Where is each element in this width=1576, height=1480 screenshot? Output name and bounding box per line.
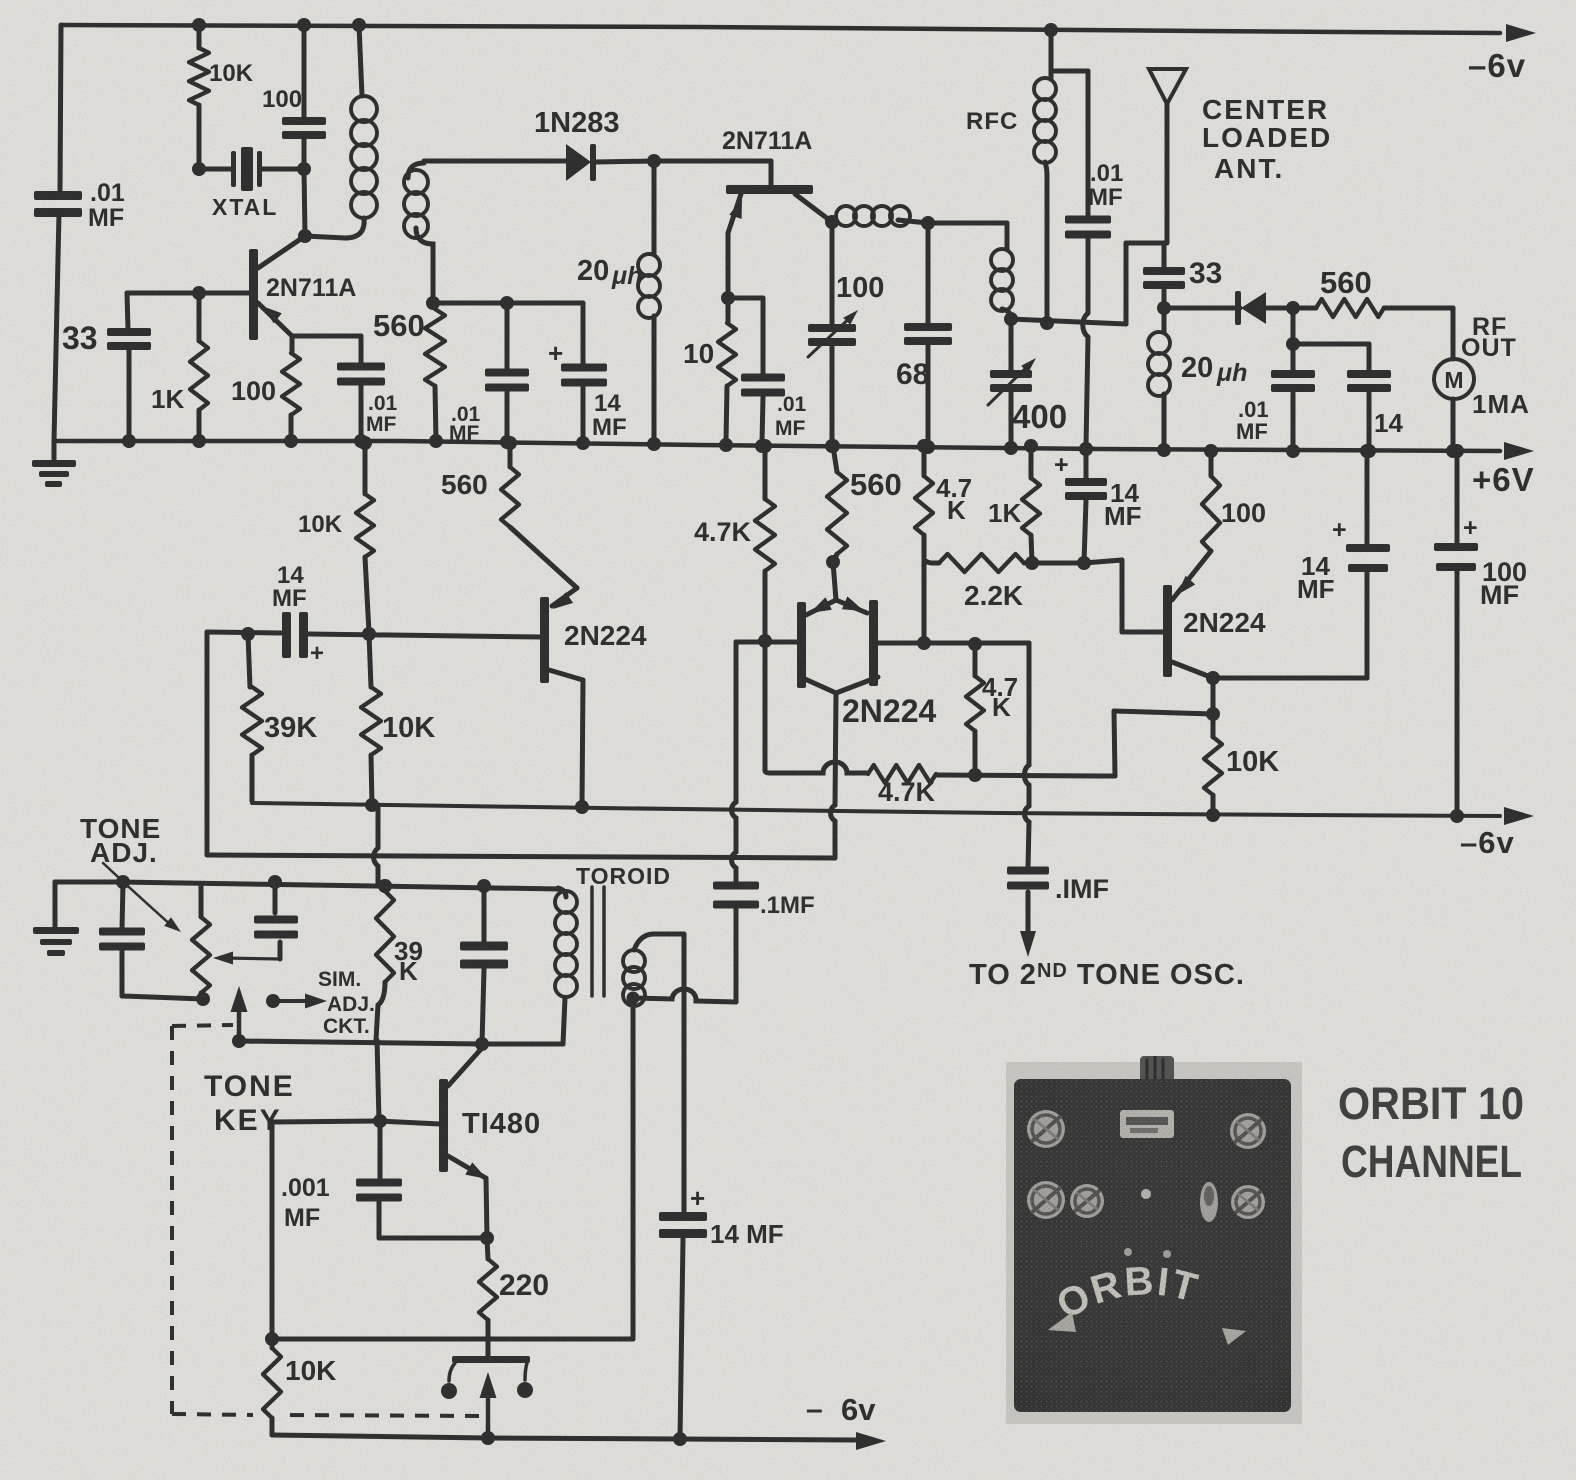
wire to meter <box>1451 308 1456 359</box>
wire Q3 bottom vertex down <box>831 693 837 858</box>
node xtal left <box>192 162 206 176</box>
label 14 MF C16 <box>1104 478 1142 531</box>
inductor L1 osc coil <box>305 25 377 238</box>
inductor L2 buffer coil <box>404 163 433 303</box>
label TO 2ND TONE OSC <box>969 959 1245 991</box>
label TI480 <box>462 1108 541 1140</box>
label 4.7K R12 <box>694 517 752 547</box>
node secondary bottom <box>627 992 640 1005</box>
label .01 MF C5 <box>775 393 807 440</box>
node 1K bottom <box>1025 556 1039 570</box>
label RFC <box>966 108 1018 135</box>
label .001 MF C25 <box>281 1174 330 1232</box>
power -6V top arrow <box>1506 24 1536 42</box>
photo orbit transmitter <box>1006 1056 1302 1424</box>
label .01 MF C4 <box>366 392 398 436</box>
label 10 R4 <box>683 338 714 369</box>
label 20uh L6 <box>1181 352 1247 387</box>
node base x765 <box>758 634 772 648</box>
wire y635 bus <box>207 632 541 637</box>
label 4.7K R13 <box>878 777 936 807</box>
resistor R6 560 <box>1293 299 1453 317</box>
wire base Q4 <box>1032 560 1163 632</box>
wire left vertical from top rail <box>60 25 61 193</box>
node C6 rail <box>500 435 514 449</box>
resistor R12 4.7K <box>755 446 775 641</box>
resistor R18 100 <box>1202 451 1220 551</box>
capacitor C9 68 <box>904 223 952 443</box>
label 10K R19 <box>1226 746 1279 778</box>
label 2N224 Q5 <box>564 620 647 651</box>
wire meter to rail <box>1451 399 1456 451</box>
node Q1 collector junction <box>298 229 312 243</box>
label 33 C3 <box>62 320 98 356</box>
wire x736 up with jogs <box>732 642 737 881</box>
label 2.2K R17 <box>964 580 1023 611</box>
label 560 R5 <box>373 308 425 343</box>
label .1MF C23 <box>760 892 815 919</box>
power +6V arrow <box>1504 442 1534 460</box>
label 220 R21 <box>499 1269 549 1302</box>
wire x272 down <box>270 1122 275 1339</box>
node RFC bottom <box>1040 316 1054 330</box>
node x1293 y344 <box>1286 308 1300 351</box>
node .001 top <box>373 1114 387 1128</box>
node x1213 y714 <box>1206 707 1220 721</box>
antenna center loaded <box>1149 69 1186 243</box>
wire +6V rail <box>54 441 1500 451</box>
ground symbol below rail left <box>32 441 76 487</box>
wire tone supply y885 <box>55 882 566 897</box>
label 560 R11 <box>850 467 902 502</box>
node C3 rail <box>122 434 136 448</box>
wire -6V mid rail <box>252 803 1500 816</box>
node pot bottom <box>196 992 210 1006</box>
node y885 x484 <box>477 879 491 893</box>
wire C1 to ground rail <box>54 213 59 441</box>
label .01 MF C1 <box>88 179 125 232</box>
label 10K R22 <box>285 1355 336 1386</box>
node rail x372 <box>365 798 379 812</box>
label 39K R8 <box>264 712 317 744</box>
node TI480 collector junction <box>475 1037 489 1051</box>
node top rail junction x304 <box>297 18 311 32</box>
node R12 rail <box>758 439 772 453</box>
resistor R2 1K <box>190 293 208 441</box>
node C10 rail <box>1004 441 1018 455</box>
wire secondary bottom hop <box>633 989 736 1002</box>
label -6v mid <box>1460 825 1515 860</box>
node C13 rail <box>1362 444 1376 458</box>
resistor R4 10 <box>718 298 736 441</box>
wire base line y1122 <box>272 1121 440 1124</box>
node tank x928 <box>921 216 935 230</box>
dashed key line vertical <box>170 1026 174 1414</box>
label .01 MF C14 <box>1236 397 1269 444</box>
label 2N711A Q2 <box>722 127 812 155</box>
node 560mod bottom <box>826 555 840 569</box>
wire Q3 left base <box>736 640 797 645</box>
wire 4.7K bottom line <box>765 762 868 773</box>
label -6v bottom <box>806 1392 876 1427</box>
dashed key line top <box>172 1025 233 1026</box>
node PA junction <box>1004 312 1018 326</box>
node y635 x369 <box>362 627 376 641</box>
wire x765 down <box>763 641 768 770</box>
wire chain x372-385 <box>374 807 379 885</box>
wire Q1 base line <box>127 291 250 296</box>
node y885 x275 <box>268 875 282 889</box>
node y635 x248 <box>241 627 255 641</box>
power -6V mid arrow <box>1504 807 1534 825</box>
label 560 R10 <box>441 469 488 500</box>
wire x633 down <box>272 998 633 1339</box>
wire x736 up to .1MF <box>734 909 739 1002</box>
label -6v top <box>1468 47 1526 84</box>
capacitor C19 100MF electrolytic <box>1434 444 1478 816</box>
node R5 rail <box>429 434 443 448</box>
capacitor C15 14MF electrolytic <box>282 612 324 667</box>
meter M RF OUT <box>1434 359 1474 399</box>
label RF OUT <box>1461 313 1517 362</box>
node base x924 <box>917 636 931 650</box>
resistor R15 4.7K upper <box>915 446 933 643</box>
label 14 C13 <box>1374 408 1403 438</box>
inductor RFC choke <box>1034 30 1056 323</box>
node D1 out <box>647 154 661 168</box>
node x1084 y563 <box>1077 556 1091 570</box>
wire RFC top to C11 <box>1051 69 1088 74</box>
wire to Q2 base <box>654 161 771 187</box>
resistor R3 100 emitter <box>282 336 300 441</box>
potentiometer tone adj <box>192 884 210 999</box>
node top rail junction x359 <box>352 18 366 32</box>
capacitor C2 100 <box>282 25 326 169</box>
inductor L6 20uh <box>1148 308 1170 449</box>
wire 39K chain down <box>377 1040 379 1121</box>
node C14 rail <box>1286 444 1300 458</box>
capacitor C5 .01MF <box>741 374 785 444</box>
label 14 MF C15 <box>272 562 307 612</box>
transistor Q6 TI480 <box>439 1048 487 1238</box>
node Q5 collector rail <box>575 800 589 814</box>
label TONE KEY <box>204 1070 295 1137</box>
capacitor C4 .01MF <box>337 363 385 442</box>
node C18 rail <box>1360 444 1374 458</box>
node Q2 collector <box>825 215 839 229</box>
node C11 rail <box>1079 442 1093 456</box>
node R3 rail <box>284 434 298 448</box>
node 560 Q5 rail <box>503 436 517 450</box>
label 10K R9 <box>382 712 435 744</box>
label XTAL <box>212 194 278 220</box>
capacitor C21 wiper <box>254 882 298 939</box>
label 10K R1 <box>209 60 254 87</box>
capacitor C11 .01MF <box>1065 71 1111 446</box>
node R13 x975 <box>968 768 982 782</box>
label TOROID <box>576 863 671 889</box>
node 560mod rail <box>826 439 840 453</box>
resistor R14 4.7K <box>966 644 984 775</box>
resistor R5 560 <box>425 309 445 441</box>
ground symbol tone left <box>33 882 79 956</box>
transformer toroid secondary <box>623 934 684 1006</box>
label TONE ADJ <box>80 813 161 868</box>
capacitor C25 .001MF <box>356 1121 487 1238</box>
wire ant to diode <box>1164 306 1240 311</box>
label 14 MF C7 <box>592 390 627 441</box>
wire x304 down <box>304 169 305 235</box>
node y885 x123 <box>116 875 130 889</box>
node R19 rail <box>1206 808 1220 822</box>
capacitor C23 .1MF <box>713 882 759 909</box>
wire -6V top rail <box>61 25 1500 33</box>
arrow to 2nd tone osc <box>1020 931 1036 957</box>
label .01 MF C11 <box>1088 160 1123 211</box>
transformer toroid core <box>592 887 604 996</box>
capacitor C1 .01MF left <box>34 191 82 217</box>
wire R13 to x1115 <box>936 711 1213 776</box>
node base x199 <box>192 286 206 300</box>
wire bottom -6V line <box>272 1435 855 1440</box>
label SIM ADJ CKT <box>318 968 375 1038</box>
label ORBIT 10 <box>1338 1078 1524 1129</box>
label 2N224 Q3 <box>842 693 937 729</box>
capacitor C24 14MF electrolytic <box>659 1183 707 1439</box>
sim adj dot arrow <box>266 994 327 1009</box>
wire y1044 to toroid <box>482 998 565 1044</box>
inductor L4 20uh choke <box>638 161 660 441</box>
node y885 x385 <box>378 879 392 893</box>
wire x684 down <box>682 934 687 1211</box>
wire y303 bus <box>433 301 583 306</box>
capacitor C3 33 <box>107 293 151 441</box>
node ant junction <box>1157 301 1171 315</box>
label .1MF C17 <box>1055 874 1109 904</box>
label 1K R2 <box>151 384 184 414</box>
label 100 R18 <box>1221 498 1266 528</box>
tone key arrow contact <box>231 986 248 1041</box>
dashed key line bottom <box>172 1414 480 1416</box>
node base x975 <box>968 637 982 651</box>
capacitor C12 33 <box>1143 243 1185 308</box>
node y303 x507 <box>500 296 514 310</box>
label 100 MF C19 <box>1480 557 1527 610</box>
wire feedback line y857 <box>207 855 835 858</box>
transformer toroid primary <box>555 891 577 997</box>
wire corner x207 <box>205 632 210 855</box>
resistor R22 10K <box>263 1339 281 1435</box>
node R4 rail <box>719 438 733 452</box>
label 39K R20 <box>394 936 423 986</box>
label .01 MF C6 <box>449 403 481 445</box>
resistor R7 10K <box>356 443 374 633</box>
transistor Q5 2N224 <box>540 588 583 806</box>
node L4 rail <box>647 437 661 451</box>
node key bottom <box>481 1431 495 1445</box>
transistor Q3 2N224 pair <box>797 562 878 693</box>
capacitor C18 14MF electrolytic <box>1332 451 1390 572</box>
diode D1 1N283 <box>566 144 654 181</box>
node C9 rail <box>921 440 935 454</box>
label +6V <box>1472 461 1535 498</box>
wire tone key line y1041 <box>239 1041 482 1044</box>
resistor R19 10K <box>1204 714 1222 815</box>
node meter rail <box>1446 444 1460 458</box>
label 10K R7 <box>298 511 343 538</box>
capacitor C10 400 variable <box>988 319 1036 447</box>
node tone key <box>232 1034 246 1048</box>
node C4 rail <box>354 434 368 448</box>
node C24 bottom <box>673 1432 687 1446</box>
node R16 rail <box>1024 439 1038 453</box>
label 2N711A Q1 <box>266 274 356 302</box>
wire collector to C18 <box>1213 572 1367 678</box>
label 4.7K R14 <box>982 672 1018 722</box>
wire Q3 right base <box>878 641 1029 646</box>
node top rail junction x199 <box>192 18 206 32</box>
capacitor C22 tone <box>460 886 508 1044</box>
wiper arrow pot <box>213 942 280 965</box>
wire x1029 to 2nd tone <box>1025 643 1030 869</box>
wire Q4 collector down <box>1211 678 1216 714</box>
arrow tone adj pointer <box>103 863 181 932</box>
label 68 C9 <box>896 358 929 391</box>
inductor L3 tank coil <box>836 206 928 226</box>
resistor R16 1K <box>1022 446 1040 563</box>
node Q2 emitter junction <box>721 291 735 305</box>
label 1MA <box>1472 389 1530 419</box>
label 100 C8 <box>836 272 884 304</box>
resistor R8 39K <box>242 634 262 801</box>
node R2 rail <box>192 434 206 448</box>
resistor R10 560 <box>501 443 577 588</box>
node L6 rail <box>1157 443 1171 457</box>
wire emitter to C4 <box>292 336 361 363</box>
capacitor C13 14 <box>1293 344 1391 451</box>
capacitor C16 14MF electrolytic <box>1054 442 1107 563</box>
label 14 MF C18 <box>1297 551 1335 604</box>
node emitter junction <box>480 1231 494 1245</box>
capacitor C17 .1MF <box>1007 867 1049 939</box>
node C7 rail <box>576 436 590 450</box>
resistor R9 10K <box>361 634 381 806</box>
node top rail junction x1051 <box>1044 23 1058 37</box>
label 1N283 <box>534 107 619 139</box>
label 100 C2 <box>262 86 302 113</box>
capacitor C6 .01MF <box>485 303 529 441</box>
node 560 top <box>426 296 440 310</box>
label 400 C10 <box>1012 398 1067 435</box>
node x272 y1339 <box>265 1332 279 1346</box>
wire PA node line <box>1011 243 1164 324</box>
label 20uh L4 <box>577 255 642 290</box>
node C5 rail <box>755 439 769 453</box>
transistor Q4 2N224 <box>1163 551 1213 678</box>
node D2 out <box>1286 301 1300 315</box>
label 100 R3 <box>231 376 276 406</box>
node C19 rail <box>1450 809 1464 823</box>
node R18 rail <box>1204 444 1218 458</box>
label 1K R16 <box>988 498 1021 528</box>
resistor R11 560 <box>827 446 847 562</box>
capacitor C7 14MF plus <box>548 303 607 441</box>
node R7 rail <box>358 436 372 450</box>
node xtal right <box>297 162 311 176</box>
label CHANNEL <box>1341 1136 1522 1187</box>
capacitor C14 .01MF <box>1271 344 1315 451</box>
label 33 C12 <box>1189 257 1222 290</box>
label 14 MF C24 <box>710 1219 784 1249</box>
power -6V bottom arrow <box>856 1432 886 1450</box>
inductor L5 small tank coil <box>991 249 1013 318</box>
node Q4 collector <box>1206 671 1220 685</box>
capacitor C20 tone left <box>99 882 203 999</box>
transistor Q1 2N711A <box>249 236 305 340</box>
wire L2 to diode <box>424 159 566 164</box>
node C8 rail <box>825 439 839 453</box>
resistor R13 4.7K <box>868 765 936 783</box>
capacitor C8 100 variable <box>808 222 858 441</box>
resistor R20 39K <box>376 879 394 1040</box>
resistor R1 10K <box>189 25 209 169</box>
crystal XTAL Y1 <box>199 147 304 191</box>
label 560 R6 <box>1320 265 1372 300</box>
key symbol <box>441 1340 533 1440</box>
wire emitter to C5 <box>728 298 763 374</box>
label 2N224 Q4 <box>1183 607 1266 638</box>
node R15 rail <box>917 439 931 453</box>
transistor Q2 2N711A <box>726 185 832 298</box>
resistor R17 2.2K <box>924 554 1032 572</box>
wire tank to corner <box>928 223 1007 249</box>
diode D2 <box>1235 291 1293 325</box>
resistor R21 220 <box>479 1238 497 1340</box>
label CENTER LOADED ANT <box>1202 94 1332 184</box>
label 4.7K R15 <box>936 473 972 525</box>
